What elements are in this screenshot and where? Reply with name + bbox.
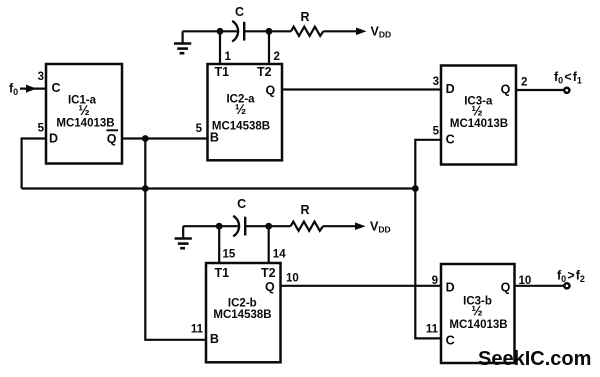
svg-text:Q: Q xyxy=(501,82,511,96)
overline of IC1-a Qbar xyxy=(107,129,119,131)
wire T1 pin (top) xyxy=(219,31,221,64)
svg-text:C: C xyxy=(446,333,455,347)
svg-text:T2: T2 xyxy=(257,65,272,79)
wire IC3-b Q to output terminal xyxy=(515,285,564,287)
svg-text:3: 3 xyxy=(433,76,439,88)
svg-text:5: 5 xyxy=(433,126,440,138)
wire resistor to VDD arrow (top) xyxy=(323,30,358,32)
svg-text:Q: Q xyxy=(107,132,117,146)
wire IC1-a D pin to left feedback xyxy=(22,139,46,189)
VDD arrowhead (bottom) xyxy=(355,222,366,230)
svg-text:D: D xyxy=(49,132,58,146)
junction dot T2 (top) xyxy=(266,28,273,35)
svg-text:10: 10 xyxy=(286,273,299,285)
svg-text:11: 11 xyxy=(426,324,439,336)
svg-text:MC14013B: MC14013B xyxy=(450,118,508,130)
flip-flop IC3-a box xyxy=(441,66,516,165)
svg-text:Q: Q xyxy=(501,280,511,294)
capacitor C (top) xyxy=(232,21,244,42)
wire capacitor to resistor (top) xyxy=(244,30,291,32)
monostable IC2-b box xyxy=(206,263,281,362)
svg-text:MC14538B: MC14538B xyxy=(213,309,271,321)
svg-text:C: C xyxy=(446,133,455,147)
terminal f0&lt;f1 xyxy=(564,88,569,93)
svg-text:C: C xyxy=(237,197,246,211)
svg-text:2: 2 xyxy=(521,77,527,89)
svg-text:R: R xyxy=(300,203,309,217)
junction dot T2 (bottom) xyxy=(265,223,272,230)
svg-text:½: ½ xyxy=(471,104,482,119)
wire mid bus node A xyxy=(22,187,416,189)
wire ground to capacitor (top) xyxy=(183,30,237,32)
junction dot T1 (bottom) xyxy=(216,223,223,230)
wire IC3-a Q to output terminal xyxy=(516,89,564,91)
svg-text:T1: T1 xyxy=(215,266,230,280)
svg-text:14: 14 xyxy=(273,248,286,260)
svg-text:½: ½ xyxy=(235,102,246,117)
svg-text:3: 3 xyxy=(38,71,44,83)
ground (bottom) xyxy=(175,226,192,248)
svg-text:D: D xyxy=(446,280,455,294)
capacitor C (bottom) xyxy=(233,216,245,237)
svg-text:MC14013B: MC14013B xyxy=(56,118,114,130)
svg-text:T1: T1 xyxy=(215,65,230,79)
svg-text:½: ½ xyxy=(471,304,482,319)
svg-text:1: 1 xyxy=(225,51,232,63)
junction dot bus/feedback xyxy=(142,185,149,192)
svg-text:B: B xyxy=(210,332,219,346)
wire IC2-a Q to IC3-a D xyxy=(282,88,441,90)
svg-text:9: 9 xyxy=(432,275,438,287)
junction dot Qbar/feedback xyxy=(142,135,149,142)
svg-text:Q: Q xyxy=(266,84,276,98)
svg-text:C: C xyxy=(52,81,61,95)
svg-text:B: B xyxy=(210,131,219,145)
svg-text:Q: Q xyxy=(265,280,275,294)
svg-text:C: C xyxy=(235,5,244,19)
input arrowhead f0 xyxy=(26,85,37,93)
svg-text:5: 5 xyxy=(196,123,203,135)
wire IC1-a Qbar to IC2-a B pin xyxy=(122,137,208,139)
wire ground to capacitor (bottom) xyxy=(183,225,238,227)
resistor R (top) xyxy=(291,27,323,36)
svg-text:IC2-b: IC2-b xyxy=(228,297,257,309)
svg-text:T2: T2 xyxy=(261,266,276,280)
wire f0 input to IC1-a C pin xyxy=(20,87,46,89)
flip-flop IC1-a box xyxy=(46,64,122,164)
resistor R (bottom) xyxy=(291,222,323,231)
wire capacitor to resistor (bottom) xyxy=(245,225,290,227)
svg-text:R: R xyxy=(300,10,309,24)
ground (top) xyxy=(174,31,191,53)
terminal f0&gt;f2 xyxy=(564,283,569,288)
wire IC2-b Q to IC3-b D xyxy=(281,285,442,287)
svg-text:2: 2 xyxy=(274,51,280,63)
flip-flop IC3-b box xyxy=(441,264,515,363)
monostable IC2-a box xyxy=(208,64,283,160)
svg-text:SeekIC.com: SeekIC.com xyxy=(478,348,591,370)
svg-text:MC14538B: MC14538B xyxy=(212,120,270,132)
wire resistor to VDD arrow (bottom) xyxy=(323,225,357,227)
svg-text:15: 15 xyxy=(223,248,236,260)
svg-text:5: 5 xyxy=(38,123,45,135)
wire T2 pin (top) xyxy=(268,31,270,64)
junction dot bus/C net xyxy=(412,185,419,192)
svg-text:MC14013B: MC14013B xyxy=(449,319,507,331)
wire IC3-a C pin down to IC3-b C pin xyxy=(415,140,441,339)
junction dot T1 (top) xyxy=(217,28,224,35)
VDD arrowhead (top) xyxy=(356,28,367,36)
wire feedback vertical to IC2-b B pin xyxy=(145,139,206,340)
svg-text:10: 10 xyxy=(519,275,532,287)
svg-text:11: 11 xyxy=(191,324,204,336)
svg-text:D: D xyxy=(446,82,455,96)
svg-text:½: ½ xyxy=(78,103,89,118)
wire T1 pin (bottom) xyxy=(218,226,220,263)
wire T2 pin (bottom) xyxy=(268,226,270,263)
